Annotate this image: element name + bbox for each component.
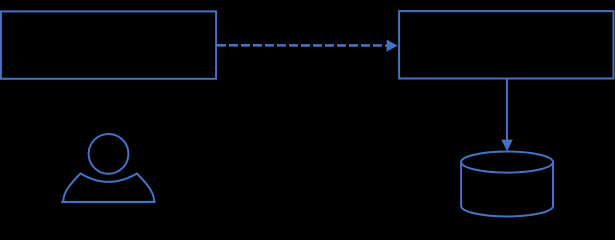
arrow to database — [501, 80, 513, 152]
actor head — [89, 134, 129, 174]
actor base line — [61, 201, 155, 203]
box right — [399, 11, 613, 78]
box left — [1, 11, 216, 78]
dashed arrow — [217, 40, 398, 52]
actor torso — [63, 174, 154, 202]
database cylinder — [461, 152, 553, 217]
